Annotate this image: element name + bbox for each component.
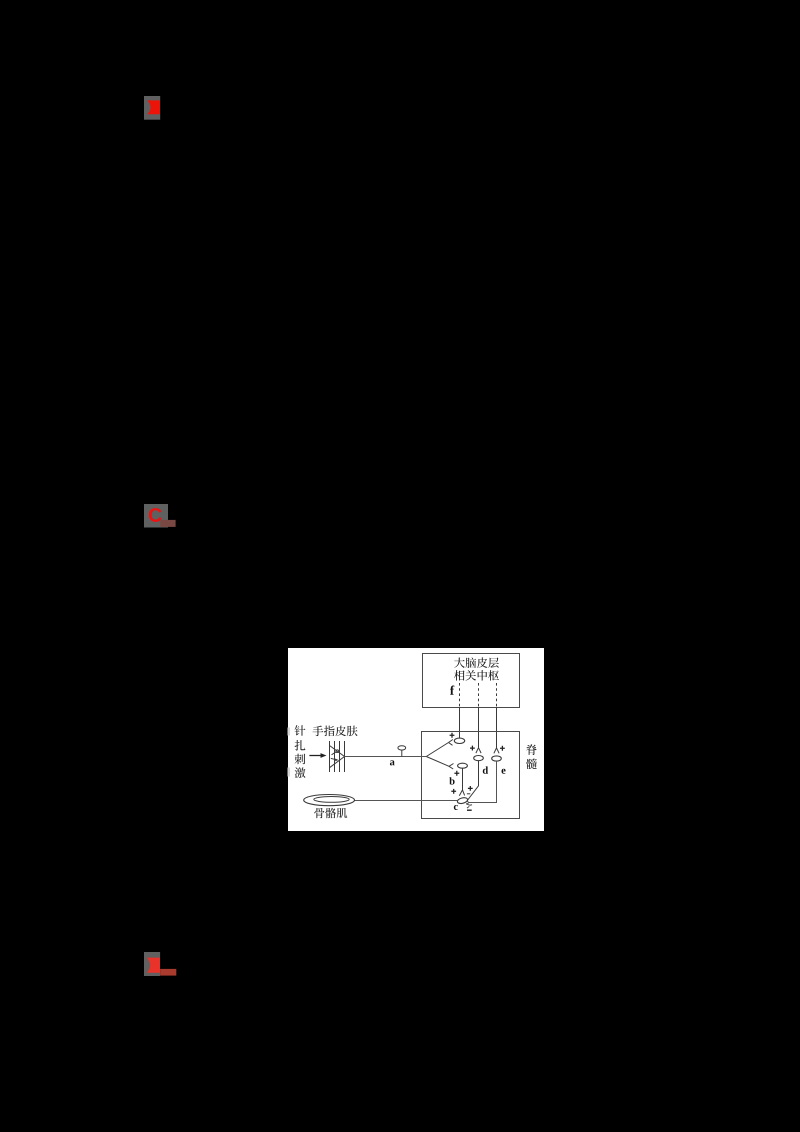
connecting fiber f: cortex box to spinal box <box>459 708 461 739</box>
synapse knob b <box>458 763 468 768</box>
stimulus arrow <box>309 753 326 758</box>
receptor: skin layer lines <box>330 741 345 772</box>
sensory neuron branch (lower, to b) <box>426 757 453 770</box>
label b <box>449 777 454 784</box>
label a <box>390 760 395 765</box>
interneuron d knob <box>474 756 484 761</box>
label c <box>454 805 458 810</box>
skeletal muscle (inner ellipse) <box>314 797 349 803</box>
text 相关中枢 <box>454 670 499 681</box>
marker icon 3 (red glyph in gray box with red bar) <box>144 952 177 976</box>
motor axon from c to skeletal muscle <box>354 800 457 802</box>
dashed nerve tract f (inside cortex box) <box>459 683 461 708</box>
label f <box>450 686 454 695</box>
marker icon 1 (red glyph in gray box) <box>144 96 161 120</box>
sensory axon from receptor to spinal cord <box>345 756 427 758</box>
label e <box>502 769 506 774</box>
skeletal muscle (outer ellipse) <box>304 795 355 806</box>
synapse knob 1 (to brain, under f fiber) <box>454 738 464 743</box>
interneuron e: terminal fork <box>494 748 499 753</box>
plus sign below b knob <box>454 771 459 776</box>
interneuron e knob <box>492 756 502 761</box>
receptor: nerve-ending triangle <box>330 746 345 768</box>
reflex arc diagram panel (white) <box>287 647 545 831</box>
text 骨骼肌 <box>314 808 347 818</box>
connecting fiber 2 <box>478 708 480 748</box>
plus sign right of e <box>500 746 505 751</box>
label d <box>483 766 488 773</box>
d axon descending to motor neuron c <box>467 761 479 801</box>
plus sign left of d <box>470 746 475 751</box>
clipped text sliver (panel left edge, upper) <box>288 728 291 736</box>
text 大脑皮层 <box>454 657 499 668</box>
connecting fiber 3 <box>496 708 498 749</box>
marker icon 2 (red C in gray box with dark red bar) <box>144 504 176 528</box>
interneuron d: terminal fork <box>476 748 481 753</box>
motor neuron c cell body <box>457 797 472 808</box>
plus sign at synapse 1 <box>450 733 455 738</box>
interneuron b axon down to motor neuron <box>459 768 464 796</box>
clipped text sliver (panel left edge, lower) <box>288 768 291 777</box>
text 手指皮肤 (finger skin) <box>313 726 358 737</box>
text 脊髓 (vertical) <box>526 744 537 769</box>
dashed nerve tract 2 (inside cortex box) <box>478 683 480 708</box>
box: spinal cord (脊髓) <box>422 732 520 819</box>
box: cerebral cortex center (大脑皮层相关中枢) <box>423 654 520 708</box>
minus sign below c <box>467 809 472 811</box>
sensory neuron branch (upper) <box>426 740 453 757</box>
dashed nerve tract 3 (inside cortex box) <box>496 683 498 708</box>
text 针扎刺激 (vertical, stimulus) <box>295 725 306 778</box>
plus sign right of c <box>468 786 473 791</box>
plus sign left of synapse on c <box>451 789 456 794</box>
node a: recording electrode <box>398 746 406 757</box>
e axon down and left to motor neuron c <box>466 761 496 805</box>
